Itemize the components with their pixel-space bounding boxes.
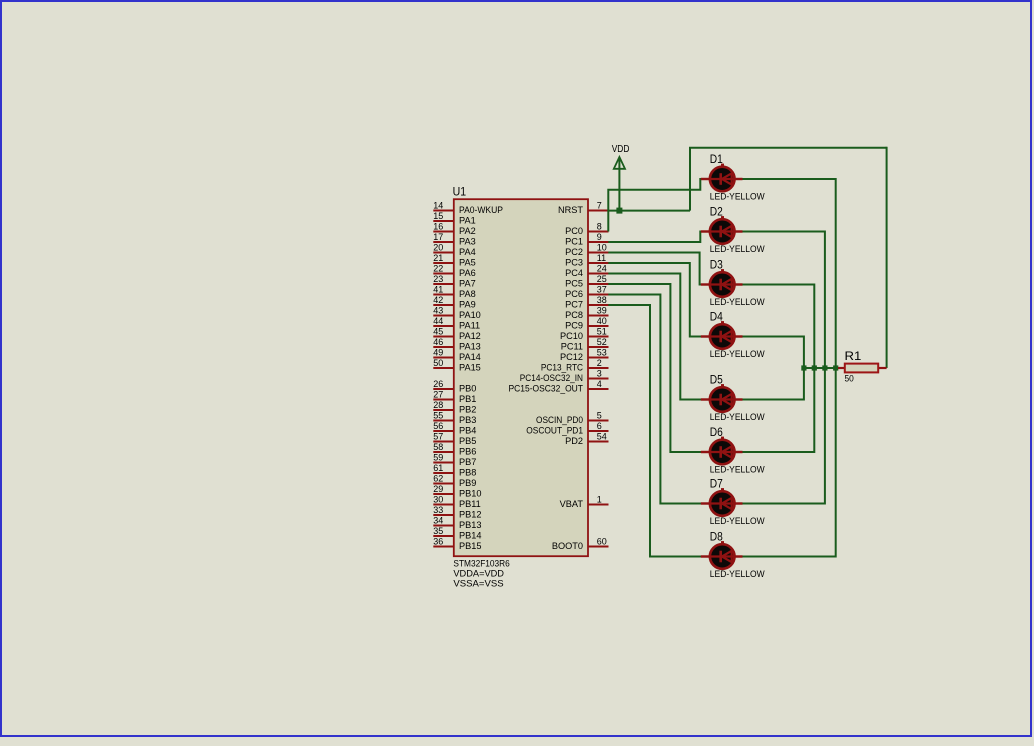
wire D1 anode to R1 bus [742,179,836,368]
U1 pin 61 PB8 [433,463,476,477]
svg-text:STM32F103R6: STM32F103R6 [453,559,509,569]
U1 pin 35 PB14 [433,526,481,540]
svg-text:25: 25 [597,274,607,284]
svg-text:PB11: PB11 [459,499,481,509]
LED D6 LED-YELLOW [701,437,743,465]
svg-text:D7: D7 [710,476,723,490]
U1 pin 22 PA6 [433,264,475,278]
U1 pin 9 PC1 [565,232,608,246]
svg-text:PB1: PB1 [459,394,476,404]
U1 pin 3 PC14-OSC32_IN [520,369,609,383]
wire D6 anode to R1 bus [742,368,814,452]
svg-text:17: 17 [433,232,443,242]
svg-text:PC0: PC0 [565,226,583,236]
junction VDD riser on NRST wire [616,208,622,214]
junction anode bus dot 2 [812,365,817,370]
svg-text:6: 6 [597,421,602,431]
svg-text:11: 11 [597,253,606,263]
U1 pin 46 PA13 [433,337,481,351]
svg-text:1: 1 [597,495,602,505]
svg-text:PA13: PA13 [459,341,481,351]
VDD net label [612,144,630,155]
junction anode bus dot 1 [801,365,806,370]
U1 pin 57 PB5 [433,432,476,446]
svg-text:33: 33 [433,505,443,515]
svg-text:PC8: PC8 [565,310,583,320]
svg-text:27: 27 [433,390,443,400]
svg-text:10: 10 [597,243,607,253]
svg-text:23: 23 [433,274,443,284]
U1 pin 20 PA4 [433,243,475,257]
svg-text:PC10: PC10 [560,331,583,341]
svg-text:VBAT: VBAT [560,499,584,509]
R1 reference label [845,349,862,363]
svg-text:43: 43 [433,306,443,316]
U1 pin 40 PC9 [565,316,608,330]
D8 value LED-YELLOW [710,569,765,579]
svg-text:22: 22 [433,264,443,274]
svg-text:41: 41 [433,285,443,295]
svg-text:53: 53 [597,348,607,358]
svg-text:LED-YELLOW: LED-YELLOW [710,297,765,307]
LED D1 LED-YELLOW [701,164,743,192]
wire R1 bus row [804,367,840,369]
svg-text:PB8: PB8 [459,467,476,477]
svg-text:PC14-OSC32_IN: PC14-OSC32_IN [520,373,583,383]
wire D5 anode to R1 bus [742,368,804,400]
svg-text:PC12: PC12 [560,352,583,362]
U1 pin 5 OSCIN_PD0 [536,411,609,425]
svg-text:44: 44 [433,316,443,326]
LED D7 LED-YELLOW [701,488,743,516]
svg-text:21: 21 [433,253,443,263]
wire PC0 to D1 cathode [608,179,702,232]
svg-text:VSSA=VSS: VSSA=VSS [453,579,503,589]
U1 pin 36 PB15 [433,537,481,551]
resistor R1 [838,364,887,373]
U1 pin 6 OSCOUT_PD1 [526,421,608,435]
wire D4 anode to R1 bus [742,337,804,369]
U1 pin 52 PC11 [561,337,609,351]
svg-text:PB3: PB3 [459,415,476,425]
svg-text:PA10: PA10 [459,310,481,320]
LED D3 LED-YELLOW [701,269,743,297]
U1 pin 37 PC6 [565,285,608,299]
svg-text:PC4: PC4 [565,268,583,278]
D6 value LED-YELLOW [710,465,765,475]
U1 pin 26 PB0 [433,379,476,393]
U1 pin 43 PA10 [433,306,481,320]
svg-text:36: 36 [433,537,443,547]
svg-text:PB6: PB6 [459,446,476,456]
U1 pin 39 PC8 [565,306,608,320]
svg-text:15: 15 [433,211,443,221]
R1 value 50 [845,374,854,384]
D7 value LED-YELLOW [710,516,765,526]
wire D3 anode to R1 bus [742,285,814,369]
U1 pin 29 PB10 [433,484,481,498]
svg-text:29: 29 [433,484,443,494]
wire PC7 to D8 cathode [608,305,702,557]
U1 pin 2 PC13_RTC [541,358,609,372]
wire PC1 to D2 cathode [608,232,702,243]
svg-text:59: 59 [433,453,443,463]
wire D8 anode to R1 bus [742,368,836,557]
IC U1 STM32F103R6 body [454,199,588,556]
U1 pin 17 PA3 [433,232,475,246]
D8 reference label [710,529,723,543]
svg-text:30: 30 [433,495,443,505]
svg-text:55: 55 [433,411,443,421]
svg-text:54: 54 [597,432,607,442]
power VDD symbol [614,157,625,211]
U1 pin 50 PA15 [433,358,481,372]
svg-text:3: 3 [597,369,602,379]
U1 pin 27 PB1 [433,390,476,404]
svg-text:39: 39 [597,306,607,316]
svg-text:PC11: PC11 [561,341,583,351]
U1 pin 58 PB6 [433,442,476,456]
svg-text:26: 26 [433,379,443,389]
svg-text:PA12: PA12 [459,331,481,341]
svg-text:49: 49 [433,348,443,358]
U1 pin 34 PB13 [433,516,481,530]
D3 value LED-YELLOW [710,297,765,307]
svg-text:5: 5 [597,411,602,421]
D4 value LED-YELLOW [710,349,765,359]
wire PC3 to D4 cathode [608,263,702,337]
svg-text:PA3: PA3 [459,236,476,246]
svg-text:60: 60 [597,537,607,547]
svg-text:VDD: VDD [612,144,630,155]
svg-text:PA8: PA8 [459,289,476,299]
U1 pin 49 PA14 [433,348,481,362]
svg-text:PC6: PC6 [565,289,583,299]
svg-text:PC2: PC2 [565,247,583,257]
wire VDD top rail [689,147,887,149]
U1 pin 25 PC5 [565,274,608,288]
U1 pin 62 PB9 [433,474,476,488]
svg-text:14: 14 [433,201,443,211]
D1 reference label [710,152,723,166]
svg-text:4: 4 [597,379,602,389]
svg-text:34: 34 [433,516,443,526]
svg-text:D8: D8 [710,529,723,543]
svg-text:58: 58 [433,442,443,452]
U1 pin 21 PA5 [433,253,475,267]
svg-text:PB15: PB15 [459,541,481,551]
svg-text:PA4: PA4 [459,247,476,257]
svg-text:D2: D2 [710,204,723,218]
svg-text:PA9: PA9 [459,299,476,309]
U1 pin 53 PC12 [560,348,608,362]
svg-text:PB12: PB12 [459,509,481,519]
svg-text:OSCOUT_PD1: OSCOUT_PD1 [526,425,583,435]
D2 value LED-YELLOW [710,244,765,254]
svg-text:51: 51 [597,327,607,337]
U1 pin 51 PC10 [560,327,608,341]
U1 pin 55 PB3 [433,411,476,425]
svg-text:LED-YELLOW: LED-YELLOW [710,244,765,254]
svg-text:PA7: PA7 [459,278,476,288]
svg-text:PB10: PB10 [459,488,481,498]
wire D7 anode to R1 bus [742,368,825,504]
U1 pin 8 PC0 [565,222,608,236]
wire PC4 to D5 cathode [608,274,702,400]
svg-text:PB7: PB7 [459,457,476,467]
D3 reference label [710,257,723,271]
U1 pin 44 PA11 [433,316,480,330]
svg-text:D4: D4 [710,309,723,323]
LED D8 LED-YELLOW [701,541,743,569]
svg-text:61: 61 [433,463,443,473]
svg-text:46: 46 [433,337,443,347]
LED D5 LED-YELLOW [701,384,743,412]
svg-text:PA0-WKUP: PA0-WKUP [459,205,503,215]
U1 pin 14 PA0-WKUP [433,201,503,215]
svg-text:45: 45 [433,327,443,337]
svg-text:57: 57 [433,432,443,442]
D7 reference label [710,476,723,490]
U1 pin 59 PB7 [433,453,476,467]
svg-text:PA15: PA15 [459,362,481,372]
svg-text:40: 40 [597,316,607,326]
wire VDD rail down to R1 right terminal [886,147,888,368]
svg-text:35: 35 [433,526,443,536]
D2 reference label [710,204,723,218]
U1 pin 33 PB12 [433,505,481,519]
svg-text:9: 9 [597,232,602,242]
svg-text:PC3: PC3 [565,257,583,267]
svg-text:LED-YELLOW: LED-YELLOW [710,192,765,202]
svg-text:D6: D6 [710,425,723,439]
U1 property VSSA=VSS [453,579,503,589]
U1 value STM32F103R6 [453,559,509,569]
D1 value LED-YELLOW [710,192,765,202]
U1 pin 11 PC3 [565,253,608,267]
D5 value LED-YELLOW [710,412,765,422]
svg-text:28: 28 [433,400,443,410]
U1 pin 24 PC4 [565,264,608,278]
svg-text:PC5: PC5 [565,278,583,288]
junction anode bus dot 3 [822,365,827,370]
svg-text:D5: D5 [710,372,723,386]
svg-text:PA14: PA14 [459,352,481,362]
svg-text:52: 52 [597,337,607,347]
svg-text:PC9: PC9 [565,320,583,330]
svg-text:OSCIN_PD0: OSCIN_PD0 [536,415,583,425]
svg-text:PA5: PA5 [459,257,476,267]
svg-text:LED-YELLOW: LED-YELLOW [710,412,765,422]
svg-text:38: 38 [597,295,607,305]
D6 reference label [710,425,723,439]
svg-text:PC7: PC7 [565,299,583,309]
svg-text:D3: D3 [710,257,723,271]
svg-text:PA6: PA6 [459,268,476,278]
svg-text:7: 7 [597,201,602,211]
svg-text:2: 2 [597,358,602,368]
wire PC2 to D3 cathode [608,253,702,285]
svg-text:BOOT0: BOOT0 [552,541,583,551]
svg-text:50: 50 [433,358,443,368]
junction anode bus dot 4 [833,365,838,370]
U1 pin 10 PC2 [565,243,608,257]
wire PC6 to D7 cathode [608,295,702,504]
svg-text:PB5: PB5 [459,436,476,446]
U1 pin 41 PA8 [433,285,475,299]
svg-text:LED-YELLOW: LED-YELLOW [710,516,765,526]
U1 pin 16 PA2 [433,222,475,236]
svg-text:8: 8 [597,222,602,232]
wire NRST pin to VDD rail [608,210,690,212]
svg-text:42: 42 [433,295,443,305]
svg-text:PC13_RTC: PC13_RTC [541,362,583,372]
svg-text:LED-YELLOW: LED-YELLOW [710,465,765,475]
U1 pin 23 PA7 [433,274,475,288]
svg-text:R1: R1 [845,349,862,363]
svg-text:PD2: PD2 [565,436,583,446]
svg-text:PA11: PA11 [459,320,480,330]
svg-text:PB0: PB0 [459,383,476,393]
U1 pin 38 PC7 [565,295,608,309]
U1 pin 30 PB11 [433,495,481,509]
U1 pin 4 PC15-OSC32_OUT [509,379,609,393]
U1 pin 42 PA9 [433,295,475,309]
svg-text:24: 24 [597,264,607,274]
svg-text:62: 62 [433,474,443,484]
U1 pin 15 PA1 [433,211,475,225]
svg-text:LED-YELLOW: LED-YELLOW [710,569,765,579]
svg-text:37: 37 [597,285,607,295]
U1 pin 28 PB2 [433,400,476,414]
svg-text:50: 50 [845,374,854,384]
svg-text:PB4: PB4 [459,425,476,435]
svg-text:PB9: PB9 [459,478,476,488]
U1 pin 54 PD2 [565,432,608,446]
svg-text:PA1: PA1 [459,215,476,225]
svg-text:U1: U1 [453,184,467,198]
svg-text:56: 56 [433,421,443,431]
D5 reference label [710,372,723,386]
svg-text:PC15-OSC32_OUT: PC15-OSC32_OUT [509,383,584,393]
U1 property VDDA=VDD [453,569,504,579]
svg-text:PB2: PB2 [459,404,476,414]
wire PC5 to D6 cathode [608,284,702,452]
svg-text:PB13: PB13 [459,520,481,530]
svg-text:LED-YELLOW: LED-YELLOW [710,349,765,359]
U1 reference label [453,184,467,198]
svg-text:VDDA=VDD: VDDA=VDD [453,569,504,579]
U1 pin 60 BOOT0 [552,537,609,551]
U1 pin 1 VBAT [560,495,609,509]
svg-text:PC1: PC1 [565,236,583,246]
LED D2 LED-YELLOW [701,216,743,244]
U1 pin 45 PA12 [433,327,481,341]
svg-text:PB14: PB14 [459,530,481,540]
D4 reference label [710,309,723,323]
LED D4 LED-YELLOW [701,321,743,349]
svg-text:PA2: PA2 [459,226,476,236]
svg-text:D1: D1 [710,152,723,166]
wire VDD rail riser x690 [689,148,691,211]
U1 pin 7 NRST [558,201,609,215]
wire D2 anode to R1 bus [742,232,825,369]
svg-text:16: 16 [433,222,443,232]
U1 pin 56 PB4 [433,421,476,435]
svg-text:NRST: NRST [558,205,583,215]
svg-text:20: 20 [433,243,443,253]
